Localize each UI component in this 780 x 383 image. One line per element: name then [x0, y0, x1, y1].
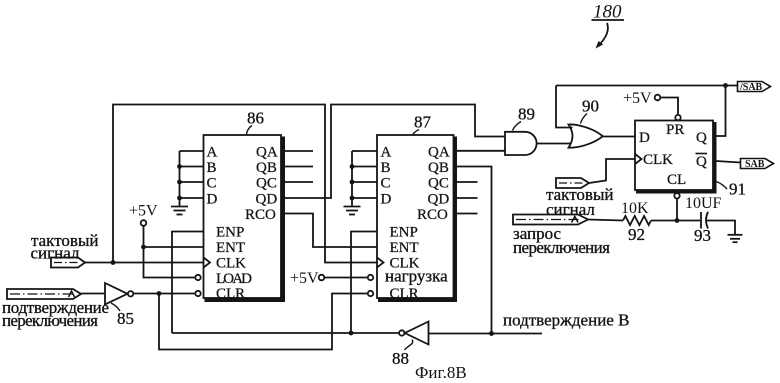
node RC junction — [675, 218, 680, 223]
junction dots U86 bus — [177, 164, 182, 200]
svg-text:85: 85 — [117, 309, 134, 328]
node Q//SAB junction — [723, 83, 728, 88]
label 88 — [392, 340, 413, 369]
wire clock top loop to CLK U87 — [113, 105, 377, 263]
svg-text:Q: Q — [696, 130, 707, 146]
wire +5V to LOAD U87 — [324, 277, 367, 279]
svg-text:LOAD: LOAD — [216, 271, 252, 287]
capacitor C93 10UF — [701, 212, 708, 229]
wire QA U86 stub — [283, 150, 313, 152]
wire QB U87 down to confirm B — [455, 167, 492, 334]
svg-text:нагрузка: нагрузка — [385, 267, 448, 286]
svg-text:QC: QC — [256, 176, 277, 192]
U86 CLK triangle pin — [204, 258, 211, 268]
wire clock to CLK U86 — [85, 262, 204, 264]
svg-text:+5V: +5V — [290, 270, 319, 287]
svg-text:C: C — [207, 176, 217, 192]
label 86 — [247, 109, 265, 135]
bubble CL — [674, 193, 679, 198]
svg-text:Q: Q — [696, 154, 707, 170]
svg-text:QD: QD — [428, 192, 450, 208]
node QB87 junction on confirm B — [489, 331, 494, 336]
wire Q feedback top rail to /SAB — [556, 85, 738, 87]
svg-text:SAB: SAB — [745, 159, 765, 170]
wire inverter 85 out to CLR U86 — [133, 293, 195, 295]
wire OR out to D input — [603, 136, 636, 138]
wire ENP U86 down to common load net — [172, 232, 204, 334]
svg-text:RCO: RCO — [417, 207, 448, 223]
wire Qbar to SAB — [716, 161, 741, 163]
svg-text:D: D — [639, 130, 650, 146]
flag SAB — [741, 159, 774, 171]
resistor R92 10K — [623, 216, 651, 225]
node clock/top-loop junction — [111, 260, 116, 265]
svg-text:QD: QD — [256, 192, 278, 208]
U86 input bus wire A-D — [180, 151, 204, 207]
wire top feedback into OR top input — [556, 86, 573, 128]
svg-text:QB: QB — [428, 160, 449, 176]
bubble LOAD U86 — [195, 275, 200, 280]
label 87 — [413, 113, 432, 136]
node +5V/ENT junction — [141, 245, 146, 250]
overline on Qbar — [696, 153, 708, 155]
AND gate U89 — [505, 132, 537, 155]
svg-text:C: C — [381, 176, 391, 192]
wire QD U87 stub — [455, 197, 478, 199]
svg-text:переключения: переключения — [2, 311, 98, 330]
U87 pin labels — [381, 145, 450, 302]
svg-text:ENP: ENP — [216, 225, 244, 241]
+5V supply for PR — [623, 90, 660, 107]
svg-text:QC: QC — [428, 176, 449, 192]
junction dots U87 bus — [350, 164, 355, 200]
wire QC U86 stub — [283, 181, 313, 183]
bubble LOAD U87 — [368, 275, 373, 280]
bubble CLR U86 — [195, 291, 200, 296]
svg-text:D: D — [381, 192, 392, 208]
wire CL down to RC node — [676, 199, 678, 221]
U87 CLK triangle pin — [377, 258, 384, 268]
svg-text:переключения: переключения — [513, 238, 610, 257]
svg-text:ENT: ENT — [390, 240, 419, 256]
U91 CLK triangle pin — [635, 154, 642, 164]
U86 pin labels — [207, 145, 278, 302]
clock signal flag (left) — [51, 258, 85, 268]
svg-text:Фиг.8В: Фиг.8В — [415, 363, 467, 382]
wire AND out to OR in — [537, 143, 574, 145]
node ENP87 junction — [349, 331, 354, 336]
wire QC U87 stub — [455, 181, 478, 183]
label 90 — [581, 97, 600, 124]
wire flag to inverter 85 — [81, 293, 105, 295]
svg-text:89: 89 — [518, 105, 535, 124]
svg-text:ENT: ENT — [216, 240, 245, 256]
svg-text:подтверждение В: подтверждение В — [503, 311, 629, 330]
wire Q up to top rail — [716, 86, 726, 137]
svg-text:10UF: 10UF — [685, 195, 722, 212]
wire +5V to ENT and LOAD U86 — [144, 226, 196, 278]
bubble PR — [675, 115, 680, 120]
wire resistor to capacitor — [651, 220, 700, 222]
wire QA U87 to AND gate — [455, 150, 505, 152]
wire RCO U87 stub — [455, 213, 478, 215]
svg-text:CLK: CLK — [643, 152, 673, 168]
+5V supply for U86 — [129, 203, 158, 226]
svg-text:PR: PR — [666, 122, 684, 138]
label clock signal (right) — [546, 185, 613, 219]
switch request flag — [513, 215, 588, 225]
svg-text:RCO: RCO — [245, 207, 276, 223]
ground for U86 inputs — [171, 207, 188, 215]
wire common load net — [172, 332, 399, 334]
svg-text:+5V: +5V — [623, 90, 652, 107]
wire clock flag to CLK U91 — [589, 159, 635, 183]
svg-text:QA: QA — [428, 145, 450, 161]
figure number 180 with arrow — [592, 2, 625, 49]
ground at capacitor — [728, 235, 743, 242]
wire +5V to PR bubble — [660, 98, 678, 115]
svg-text:90: 90 — [582, 97, 599, 116]
svg-text:D: D — [207, 192, 218, 208]
switch acknowledge flag (left) — [7, 289, 81, 299]
wire ENP U87 down to common load net — [351, 232, 377, 334]
svg-text:88: 88 — [392, 349, 409, 368]
ground for U87 inputs — [344, 207, 361, 215]
svg-text:B: B — [381, 160, 391, 176]
bubble CLR U87 — [368, 291, 373, 296]
svg-text:CL: CL — [667, 172, 686, 188]
counter U86 box — [204, 135, 286, 301]
node CLR chain junction — [157, 291, 162, 296]
svg-text:CLK: CLK — [216, 256, 246, 272]
svg-text:10K: 10K — [621, 200, 649, 217]
svg-text:QA: QA — [256, 145, 278, 161]
wire capacitor to ground — [707, 221, 736, 235]
svg-text:ENP: ENP — [390, 225, 418, 241]
svg-text:CLR: CLR — [216, 286, 245, 302]
svg-text:92: 92 — [628, 225, 645, 244]
counter U87 box — [377, 135, 457, 301]
inverter U88 (pointing left) — [399, 322, 428, 345]
clock signal flag (right) — [556, 178, 589, 188]
label 89 — [513, 105, 536, 131]
svg-text:91: 91 — [729, 180, 746, 199]
inverter U85 — [105, 283, 133, 305]
U87 input bus wire A-D — [352, 151, 377, 207]
svg-text:86: 86 — [247, 109, 264, 128]
wire flag to resistor — [588, 220, 623, 221]
svg-text:93: 93 — [694, 226, 711, 245]
svg-text:QB: QB — [256, 160, 277, 176]
svg-text:сигнал: сигнал — [31, 244, 80, 263]
svg-text:B: B — [207, 160, 217, 176]
flag /SAB — [738, 82, 771, 94]
svg-text:+5V: +5V — [129, 203, 158, 220]
svg-text:CLR: CLR — [390, 286, 419, 302]
svg-text:/SAB: /SAB — [739, 82, 763, 93]
label switch acknowledge — [2, 298, 109, 330]
wire QD U86 to AND gate over top — [283, 105, 505, 199]
svg-text:A: A — [381, 145, 392, 161]
wire confirm B into inverter 88 — [429, 333, 543, 335]
label clock signal (left) — [31, 231, 99, 263]
U91 pin labels — [639, 122, 707, 188]
wire ENT U86 — [144, 246, 204, 248]
svg-text:87: 87 — [414, 113, 432, 132]
label switch request — [513, 224, 610, 257]
wire QB U86 stub — [283, 166, 313, 168]
wire RCO U86 to ENT U87 — [283, 214, 377, 248]
label 85 — [111, 303, 134, 328]
+5V supply for U87 — [290, 270, 324, 287]
svg-text:A: A — [207, 145, 218, 161]
OR gate U90 — [569, 124, 603, 147]
D flip-flop U91 box — [635, 121, 717, 193]
wire CLR chain to CLR U87 — [159, 294, 368, 350]
label 91 — [716, 180, 746, 199]
